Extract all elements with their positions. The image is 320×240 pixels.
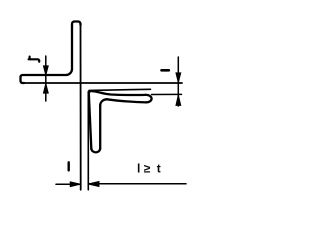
label l (above left dimension line) [67,162,69,170]
profile 1 bottom surface line, extended right [24,82,182,84]
label l >= t (condition text) [137,162,161,176]
dimension step : lower arrowhead pointing up [176,95,181,106]
dimension l : left arrowhead pointing right [70,182,80,187]
profile 1 rounded left end cap [21,75,25,83]
angle profile 1 (upper-left, thickness t) [21,22,81,84]
profile 1 left edge of vertical leg [71,25,73,69]
dimension l (bottom) : left dimension line segment [56,183,81,185]
svg-text:t: t [157,162,161,176]
profile 2 left surface extension line downward [87,92,89,190]
profile 1 rounded top end cap [72,22,81,26]
profile 2 inner right edge of vertical leg [99,105,101,148]
profile 1 right surface line, extended down [80,25,82,190]
label dash [162,69,169,72]
dimension t : upper arrowhead pointing down [43,66,48,76]
dimension step : upper arrowhead pointing down [176,73,181,83]
profile 2 rounded bottom end cap [91,148,100,152]
profile 2 top surface extension line to the right [89,89,151,90]
profile 2 outer corner and left edge of vertical leg [89,91,92,148]
profile 2 top edge of horizontal leg (drooping) [91,91,146,95]
angle profile 2 (lower-right) [89,91,152,152]
svg-text:≥: ≥ [144,162,151,176]
dimension t : vertical dimension line [45,56,47,101]
dimension t : lower arrowhead pointing up [43,83,48,93]
dimension l : right dimension line segment [88,183,186,185]
profile 1 inner fillet [66,69,72,75]
dimension l : right arrowhead pointing left [88,182,99,187]
extension line of profile 2 sagged top surface, right of end cap [152,93,182,95]
profile 1 top edge of horizontal leg [24,74,66,76]
profile 2 inner bottom edge of horizontal leg [107,99,146,102]
label t (rotated) [29,57,40,62]
dimension step (top right) : vertical dimension line [177,57,179,106]
profile 2 rounded right end cap [146,95,152,103]
profile 2 inner fillet [100,99,107,105]
svg-text:l: l [137,162,140,176]
